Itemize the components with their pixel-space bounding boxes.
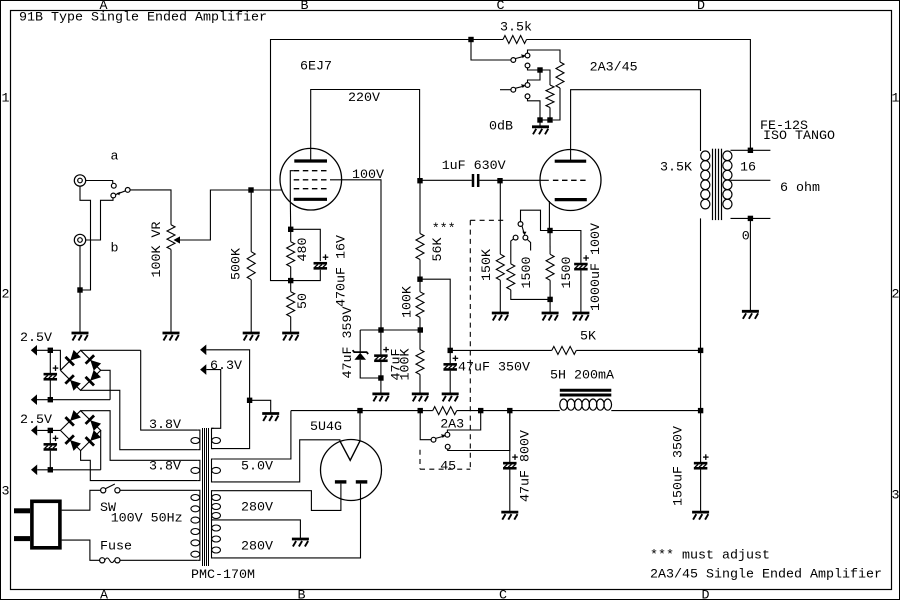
filament select switch pole <box>420 411 431 440</box>
ground 100K lower <box>412 394 429 402</box>
svg-text:2: 2 <box>892 288 900 303</box>
winding 280V upper <box>212 491 214 520</box>
svg-text:1uF 630V: 1uF 630V <box>442 159 506 174</box>
resistor 5K <box>552 346 576 354</box>
svg-text:150K: 150K <box>480 249 495 281</box>
bridge 2 diode TL <box>65 410 81 426</box>
5U4G plate right <box>356 480 368 483</box>
svg-text:56K: 56K <box>431 238 446 262</box>
6EJ7 plate bar <box>294 159 327 162</box>
2A3 cathode bar <box>555 198 587 201</box>
junction feedback divider <box>468 37 473 42</box>
junction rail1 cap <box>48 348 53 353</box>
switch SW lever <box>105 484 115 489</box>
wire 6EJ7 plate to 220V line <box>311 90 420 181</box>
tube 6EJ7 envelope <box>280 148 342 210</box>
2A3 grid row <box>553 179 586 181</box>
secondary tap 6ohm <box>731 179 771 181</box>
capacitor filter bridge2 <box>49 430 51 443</box>
capacitor 1000uF 100V <box>550 231 581 263</box>
junction 16 tap <box>748 148 753 153</box>
switch FB1 pole <box>511 58 516 63</box>
svg-text:2: 2 <box>2 288 10 303</box>
junction cathode node <box>288 227 293 232</box>
wire 5.0V top to B+ rail <box>214 411 291 459</box>
wire left contact to 1500L <box>511 239 514 264</box>
switch bias top contact <box>518 222 523 227</box>
svg-text:100K: 100K <box>400 286 415 318</box>
junction cap bottom <box>378 375 383 380</box>
arrow 2.5V rail4 <box>31 465 37 476</box>
resistor 1500 right <box>549 231 551 255</box>
bridge 2 diode BL <box>65 435 81 451</box>
junction rail right <box>478 408 483 413</box>
junction rail3 cap <box>48 428 53 433</box>
svg-text:3.8V: 3.8V <box>149 460 181 475</box>
winding primary 100V <box>198 490 200 560</box>
ground center tap <box>292 539 309 547</box>
wire 5.0V bottom to filament left <box>214 440 340 482</box>
ground 50 <box>282 333 299 341</box>
wire 280V top to left plate <box>214 484 341 511</box>
dashed box 45 option <box>470 219 507 221</box>
bridge 1 diode BL <box>65 375 81 391</box>
svg-text:3.5k: 3.5k <box>500 21 532 36</box>
svg-text:2A3/45: 2A3/45 <box>590 61 638 76</box>
svg-text:3: 3 <box>892 489 900 504</box>
pot lower lead <box>170 249 172 332</box>
filament select contact 2A3 <box>445 432 450 437</box>
junction rail 5U4G <box>357 408 362 413</box>
svg-text:1: 1 <box>2 92 10 107</box>
wire jack a tip to selector contact <box>86 181 113 184</box>
resistor 100K lower <box>419 330 421 350</box>
wire contact 2A3 up <box>447 411 480 433</box>
svg-text:100V: 100V <box>352 168 384 183</box>
ground 47uF 359V <box>372 394 389 402</box>
wire bridge1 B AC to winding1 bottom <box>81 390 198 449</box>
svg-text:6.3V: 6.3V <box>210 359 242 374</box>
filament select lever <box>436 436 445 438</box>
ground 1500 right <box>542 313 559 321</box>
ground 1000uF <box>572 313 589 321</box>
svg-text:3.5K: 3.5K <box>660 160 692 175</box>
output transformer core <box>712 149 714 220</box>
ground 47uF 800V <box>501 512 518 520</box>
6EJ7 cathode bar <box>294 198 327 201</box>
winding 280V lower <box>212 520 214 558</box>
switch bias lever <box>522 226 524 233</box>
resistor 500K <box>250 190 252 252</box>
wire bridge1 R to rail2 <box>101 370 110 399</box>
5U4G plate left <box>335 480 347 483</box>
bridge 1 diode BR <box>86 369 102 385</box>
junction 56K bottom <box>417 277 422 282</box>
svg-text:1000uF 100V: 1000uF 100V <box>589 223 604 311</box>
svg-text:220V: 220V <box>348 91 380 106</box>
svg-text:100V 50Hz: 100V 50Hz <box>111 512 183 527</box>
junction B+ filter node <box>698 408 703 413</box>
wire jack a sleeve to ground bus <box>80 186 91 290</box>
input jack a <box>74 175 85 186</box>
ground input jacks <box>72 333 89 341</box>
wire plate node down to 56K <box>419 181 421 234</box>
bridge 1 diode TR <box>86 355 102 371</box>
junction cathode lower node <box>288 278 293 283</box>
bridge 2 diode TR <box>86 415 102 431</box>
wire grid node to 6EJ7 grid <box>251 189 282 191</box>
feedback wire from 16 ohm tap <box>271 40 504 281</box>
wire bias top contact to cathode node <box>521 210 551 230</box>
switch bias contact left <box>513 235 518 240</box>
svg-text:280V: 280V <box>241 501 273 516</box>
svg-text:2.5V: 2.5V <box>20 413 52 428</box>
output transformer secondary <box>723 151 732 161</box>
switch FB1 contact up <box>525 53 530 58</box>
capacitor filter bridge1 <box>49 350 51 373</box>
svg-text:5U4G: 5U4G <box>310 420 342 435</box>
svg-text:2.5V: 2.5V <box>20 331 52 346</box>
wire plate node to cap <box>420 179 472 181</box>
svg-text:100K VR: 100K VR <box>150 222 165 278</box>
switch FB1 lever <box>515 56 524 58</box>
wire plug top to switch <box>62 490 101 510</box>
winding 6.3V <box>212 428 214 448</box>
wire FB1 down-contact to node <box>528 68 541 70</box>
secondary tap 16 <box>731 149 771 151</box>
junction 2A3 grid node <box>497 178 502 183</box>
resistor 50 <box>290 281 292 292</box>
wire node down to switch FB2 <box>528 70 541 83</box>
svg-text:C: C <box>499 588 507 600</box>
resistor feedback right <box>556 62 564 88</box>
svg-text:1: 1 <box>892 92 900 107</box>
winding 3.8V lower <box>198 460 200 480</box>
switch FB2 contact up <box>525 83 530 88</box>
svg-text:5K: 5K <box>580 330 596 345</box>
svg-text:ISO TANGO: ISO TANGO <box>763 129 835 144</box>
svg-text:***: *** <box>432 222 456 237</box>
wire jack b sleeve to ground <box>79 246 81 333</box>
svg-text:b: b <box>111 242 119 257</box>
svg-text:500K: 500K <box>230 248 245 280</box>
junction 47uF800V node <box>507 408 512 413</box>
arrow 6.3V lower <box>200 364 206 375</box>
junction input ground <box>77 287 82 292</box>
selector switch SW1 pole <box>125 188 130 193</box>
junction grid node <box>248 187 253 192</box>
wire between ground nodes <box>540 119 550 121</box>
arrow 2.5V rail2 <box>31 394 37 405</box>
wire bridge2 B AC to winding2 bottom <box>81 451 198 481</box>
stub right contact <box>527 240 530 251</box>
svg-text:47uF 800V: 47uF 800V <box>519 430 534 502</box>
svg-text:6 ohm: 6 ohm <box>780 181 820 196</box>
capacitor 150uF 350V <box>700 411 702 462</box>
switch FB2 contact down <box>525 94 530 99</box>
6EJ7 grid rows <box>294 170 328 172</box>
junction 6.3V ground tap <box>247 398 252 403</box>
svg-text:B: B <box>301 0 309 14</box>
ground 47uF 350V <box>442 394 459 402</box>
resistor 2A3 filament option <box>433 407 457 415</box>
arrow 2.5V rail3 <box>31 425 37 436</box>
capacitor 47uF 359V <box>380 330 382 355</box>
junction ground node left <box>537 117 542 122</box>
tube 5U4G envelope <box>321 440 382 501</box>
ground 0 tap <box>742 311 759 319</box>
junction rail2 cap <box>48 397 53 402</box>
wire divider down to switch pole <box>471 40 511 61</box>
svg-text:a: a <box>111 150 119 165</box>
junction B+ node <box>698 348 703 353</box>
fuse <box>100 558 105 563</box>
wire fuse to primary bottom <box>120 559 198 561</box>
capacitor 47uF 800V <box>509 411 511 462</box>
secondary tap 0 <box>731 217 771 219</box>
switch FB2 lever <box>515 86 524 88</box>
svg-text:16: 16 <box>740 160 756 175</box>
svg-text:2A3/45 Single Ended Amplifier: 2A3/45 Single Ended Amplifier <box>650 568 882 583</box>
resistor feedback left <box>546 85 554 108</box>
svg-text:480: 480 <box>296 238 311 262</box>
junction plate node <box>417 178 422 183</box>
wire jack b tip to selector contact b <box>86 198 113 240</box>
ground 0dB network <box>532 127 549 135</box>
wire 6EJ7 cathode down <box>289 199 291 230</box>
power switch SW <box>101 488 106 493</box>
selector switch SW1 contact a <box>111 183 116 188</box>
wire bridge2 R to rail4 <box>100 430 102 469</box>
resistor 100K upper <box>419 279 421 292</box>
switch bias contact right <box>523 235 528 240</box>
selector switch SW1 contact b <box>111 193 116 198</box>
winding 3.8V upper <box>198 430 200 450</box>
svg-text:0dB: 0dB <box>489 120 513 135</box>
svg-text:280V: 280V <box>241 540 273 555</box>
junction 1500 bottom <box>547 297 552 302</box>
svg-text:PMC-170M: PMC-170M <box>191 568 255 583</box>
wire to ground <box>539 120 541 127</box>
output transformer primary <box>701 151 710 161</box>
wire to 47uF350V cap node <box>420 279 450 350</box>
wire contact 45 right <box>448 411 510 451</box>
wire 2A3 cathode down <box>548 201 551 231</box>
wire center tap to ground <box>214 520 301 539</box>
svg-text:D: D <box>702 588 710 600</box>
wire ground tap <box>250 400 271 413</box>
junction rail4 cap <box>48 467 53 472</box>
2A3 plate bar <box>555 160 587 163</box>
input jack b <box>74 234 85 245</box>
wire wiper to grid node <box>180 190 251 240</box>
resistor 480 <box>290 229 292 241</box>
wire grid node down to 150K <box>499 181 501 255</box>
power transformer core <box>202 428 204 566</box>
bridge rectifier 2 diamond <box>60 411 100 451</box>
wire 0 tap to ground <box>749 218 751 311</box>
zener diode <box>353 350 369 354</box>
junction 0dB node <box>537 67 542 72</box>
svg-text:47uF 359V: 47uF 359V <box>341 307 356 379</box>
wire 2A3 plate to output transformer <box>571 90 701 161</box>
wire selector pole to volume pot <box>130 190 171 225</box>
switch FB2 stub <box>500 89 511 91</box>
arrow 2.5V rail1 <box>31 345 37 356</box>
resistor 3.5k feedback <box>503 36 527 44</box>
svg-text:470uF 16V: 470uF 16V <box>334 235 349 307</box>
svg-text:5.0V: 5.0V <box>241 460 273 475</box>
wire bridge1 T AC to winding1 top <box>81 349 141 351</box>
mains plug <box>32 501 60 548</box>
ground 6.3V tap <box>262 414 279 422</box>
svg-text:6EJ7: 6EJ7 <box>300 60 332 75</box>
svg-text:150uF 350V: 150uF 350V <box>672 426 687 506</box>
filament select contact 45 <box>445 444 450 449</box>
resistor 56K <box>416 234 424 260</box>
ground pot <box>163 333 180 341</box>
capacitor 470uF 16V <box>291 229 321 261</box>
bridge 2 diode BR <box>86 430 102 446</box>
wire B+ node up <box>700 350 702 410</box>
wire FB1 up-contact to right resistor <box>528 50 561 62</box>
wire node to left resistor <box>540 70 550 85</box>
capacitor 1uF 630V <box>472 174 475 187</box>
ground 500K <box>243 333 260 341</box>
wire cap to 2A3 grid node <box>479 179 548 181</box>
wire choke to B+ node <box>611 410 700 412</box>
choke 5H 200mA <box>560 389 612 392</box>
switch FB1 contact down <box>525 63 530 68</box>
wire switch to primary top <box>120 489 198 491</box>
wire plug bottom to fuse <box>62 540 100 560</box>
pot wiper arrow <box>174 236 181 243</box>
junction 2A3 cathode node <box>547 228 552 233</box>
resistor 1500 left <box>507 264 515 290</box>
svg-text:*** must adjust: *** must adjust <box>650 549 770 564</box>
junction ground node right <box>547 117 552 122</box>
svg-text:45: 45 <box>440 460 456 475</box>
wire bridge2 T AC to winding2 top <box>81 411 198 461</box>
wire 5U4G output rail <box>291 410 360 412</box>
svg-text:1500: 1500 <box>520 257 535 289</box>
wire 6EJ7 screen 100V line <box>330 180 381 330</box>
ground 150uF 350V <box>692 512 709 520</box>
junction screen node <box>378 327 383 332</box>
resistor 150K <box>496 254 504 280</box>
svg-text:3.8V: 3.8V <box>149 418 181 433</box>
svg-text:3: 3 <box>2 485 10 500</box>
svg-text:0: 0 <box>742 230 750 245</box>
junction 100K mid node <box>418 327 423 332</box>
selector lever <box>116 191 126 195</box>
svg-text:Fuse: Fuse <box>100 540 132 555</box>
wire zener branch <box>359 330 361 352</box>
bridge rectifier 1 diamond <box>60 350 100 390</box>
bridge 1 diode TL <box>65 349 81 365</box>
svg-text:B: B <box>298 588 306 600</box>
junction 0 tap <box>748 216 753 221</box>
wire to 5K <box>450 349 552 351</box>
ground 150K <box>492 313 509 321</box>
junction B+ screen feed <box>448 348 453 353</box>
6EJ7 g3 strap <box>290 171 293 199</box>
svg-text:1500: 1500 <box>560 257 575 289</box>
svg-text:5H 200mA: 5H 200mA <box>550 369 614 384</box>
svg-text:47uF 350V: 47uF 350V <box>458 361 530 376</box>
svg-text:D: D <box>697 0 705 14</box>
svg-text:91B Type Single Ended Amplifie: 91B Type Single Ended Amplifier <box>19 11 267 26</box>
5U4G filament V <box>340 441 360 460</box>
svg-text:100K: 100K <box>398 349 413 381</box>
winding 5.0V <box>212 459 214 482</box>
wire 280V bottom to right plate <box>214 484 361 558</box>
wire zener to bottom node <box>360 360 381 378</box>
wire mid node to zener node <box>360 329 420 331</box>
capacitor 47uF 350V <box>449 350 451 363</box>
tube 2A3 envelope <box>540 150 601 211</box>
svg-text:A: A <box>100 588 108 600</box>
wire filament right to rail <box>359 411 361 441</box>
junction rail left <box>418 408 423 413</box>
switch FB2 pole <box>511 87 516 92</box>
potentiometer 100K VR <box>167 225 175 250</box>
svg-text:C: C <box>497 0 505 14</box>
wire FB2 down-contact to ground node <box>528 99 541 120</box>
arrow 6.3V upper <box>200 345 206 356</box>
svg-text:50: 50 <box>296 293 311 309</box>
